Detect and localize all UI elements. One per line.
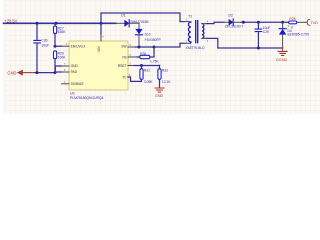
svg-text:TC: TC bbox=[122, 75, 127, 79]
pin EN/UVLO bbox=[62, 45, 70, 47]
svg-text:DGND: DGND bbox=[276, 58, 287, 62]
svg-text:VIN: VIN bbox=[97, 46, 101, 52]
capacitor C29 bbox=[257, 22, 259, 29]
wire clamp D1-D10 bbox=[129, 23, 139, 29]
resistor R27 bbox=[54, 23, 56, 26]
svg-text:D2: D2 bbox=[229, 13, 233, 17]
svg-text:DFLS1100-7: DFLS1100-7 bbox=[225, 25, 244, 29]
svg-text:0: 0 bbox=[291, 25, 293, 29]
pin FB bbox=[128, 56, 137, 58]
pin SW bbox=[128, 46, 136, 48]
resistor R32 bbox=[159, 66, 161, 69]
svg-text:536K: 536K bbox=[58, 30, 67, 34]
resistor R28 bbox=[289, 21, 297, 24]
svg-text:D1: D1 bbox=[121, 13, 125, 17]
resistor R30 bbox=[137, 56, 140, 58]
svg-text:7VD: 7VD bbox=[310, 20, 318, 25]
pin TC bbox=[128, 76, 131, 78]
svg-text:D10: D10 bbox=[145, 33, 151, 37]
svg-text:BZD585-C7V5: BZD585-C7V5 bbox=[288, 33, 310, 37]
svg-text:SW: SW bbox=[121, 45, 127, 49]
svg-text:R31: R31 bbox=[144, 69, 150, 73]
svg-text:12.1K: 12.1K bbox=[162, 80, 171, 84]
wire VIN column and bypass to T1 bbox=[101, 13, 184, 34]
wire GND rail left bbox=[35, 72, 55, 74]
resistor R31 bbox=[141, 66, 143, 69]
pin PAD bbox=[62, 71, 70, 73]
svg-text:R30: R30 bbox=[140, 52, 146, 56]
wire secondary top to D2 bbox=[207, 22, 225, 23]
pin VIN bbox=[100, 34, 102, 41]
svg-text:RSET: RSET bbox=[118, 64, 127, 68]
pin RSET bbox=[128, 65, 134, 67]
svg-text:R32: R32 bbox=[162, 69, 168, 73]
wire secondary return rail bbox=[207, 38, 283, 48]
zener D4 bbox=[282, 22, 284, 28]
svg-text:PLM25180QNGURQ1: PLM25180QNGURQ1 bbox=[70, 96, 104, 100]
wire SW net bbox=[136, 43, 185, 47]
diode D2 bbox=[224, 21, 229, 23]
pin SS/BIAS bbox=[62, 83, 70, 85]
diode D10 bbox=[135, 29, 142, 35]
svg-text:3.09K: 3.09K bbox=[144, 80, 153, 84]
diode D1 TVS bbox=[116, 22, 125, 24]
svg-text:PAD: PAD bbox=[71, 70, 78, 74]
svg-text:T1: T1 bbox=[188, 14, 192, 18]
svg-text:SS/BIAS: SS/BIAS bbox=[71, 82, 85, 86]
power port 7VD bbox=[306, 19, 310, 25]
svg-text:EN/UVLO: EN/UVLO bbox=[71, 45, 86, 49]
wire output rail bbox=[241, 21, 288, 23]
ground DGND bbox=[282, 48, 284, 51]
ground GND under R32 bbox=[155, 88, 164, 92]
svg-text:1.76K: 1.76K bbox=[150, 60, 159, 64]
svg-text:FSV360FP: FSV360FP bbox=[145, 38, 162, 42]
capacitor C30 bbox=[36, 23, 38, 40]
svg-text:GND: GND bbox=[7, 70, 16, 75]
IC U9 PLM25180QNGURQ1 bbox=[69, 41, 128, 90]
svg-text:10uF: 10uF bbox=[41, 44, 49, 48]
svg-text:YA8779-BLD: YA8779-BLD bbox=[186, 46, 206, 50]
svg-text:C30: C30 bbox=[41, 39, 47, 43]
svg-text:GND: GND bbox=[155, 94, 164, 98]
svg-text:C29: C29 bbox=[263, 30, 269, 34]
svg-text:R28: R28 bbox=[289, 17, 295, 21]
svg-text:100K: 100K bbox=[58, 55, 67, 59]
pin GND bbox=[62, 65, 70, 67]
wire RSET net bbox=[134, 65, 160, 67]
wire +28.5V rail bbox=[4, 22, 116, 24]
resistor R29 bbox=[54, 51, 57, 59]
svg-text:GND: GND bbox=[71, 64, 79, 68]
node EN divider junction bbox=[54, 45, 57, 48]
